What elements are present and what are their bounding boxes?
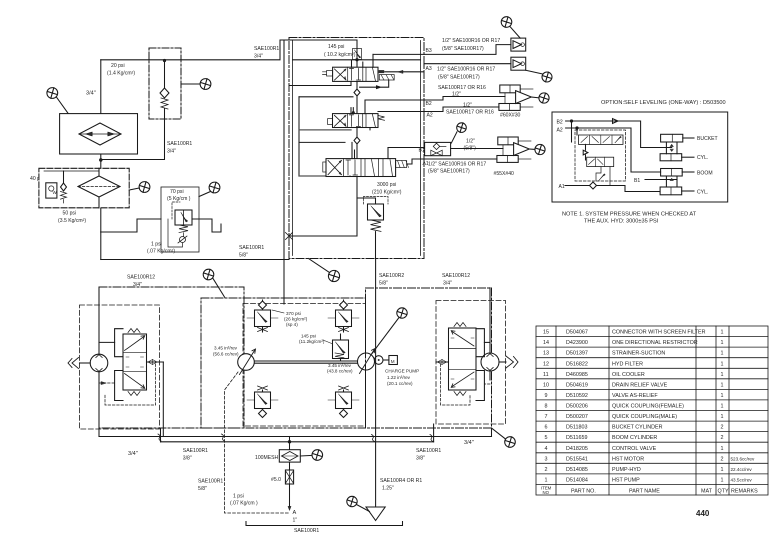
label SAE100R2 5/8" [379,273,404,287]
port symbol P11 [203,269,225,298]
svg-text:(5 Kg/cm ): (5 Kg/cm ) [167,196,191,202]
label 3000 psi [372,182,402,196]
svg-text:A2: A2 [557,128,563,134]
svg-text:1: 1 [721,330,724,336]
svg-text:6: 6 [545,425,548,431]
svg-text:440: 440 [696,509,710,518]
svg-text:PART NO.: PART NO. [571,488,596,494]
check diamond on A1 [590,182,597,189]
node B2 [570,120,572,122]
svg-text:QUICK COUPLING(FEMALE): QUICK COUPLING(FEMALE) [612,404,684,410]
svg-text:(1.4 Kg/cm²): (1.4 Kg/cm²) [107,71,135,77]
label 1/2" SAE100R17 OR R16 [446,103,494,116]
svg-text:20 psi: 20 psi [111,63,125,69]
svg-text:B1: B1 [419,148,425,154]
parts table [536,326,768,495]
svg-text:8: 8 [545,404,548,410]
HST motor right dashed case [436,301,506,425]
bracket upper motor2 [476,329,484,357]
spool2 riser stubs [351,100,370,130]
one directional restrictor D423900 [425,142,451,155]
svg-text:VALVE AS-RELIEF: VALVE AS-RELIEF [612,393,658,399]
HST motor right box [366,288,492,428]
svg-text:(43.8 cc/rev): (43.8 cc/rev) [327,369,353,374]
svg-text:14: 14 [543,340,549,346]
svg-text:QUICK COUPLING(MALE): QUICK COUPLING(MALE) [612,414,677,420]
wire left return down [100,232,102,260]
svg-text:9: 9 [545,393,548,399]
label SAE100R1 5/8" [239,245,264,259]
charge check BR [328,386,359,418]
svg-text:2: 2 [721,425,724,431]
svg-text:SAE100R1: SAE100R1 [294,528,319,534]
hyd filter D516822 with bypass [39,168,129,208]
svg-text:D510592: D510592 [566,393,588,399]
svg-text:1 psi: 1 psi [233,494,244,500]
svg-text:(5/8" SAE100R17): (5/8" SAE100R17) [428,169,470,175]
orifice motor1 [147,360,164,365]
svg-text:3/4": 3/4" [128,451,138,457]
control valve inner wall [293,41,421,256]
port symbol P2 [181,79,211,90]
svg-text:1/2": 1/2" [463,103,472,109]
table rows text [541,330,758,495]
HST motor left box [99,287,244,428]
node A2 [576,127,578,129]
wire pump loop lines [254,361,357,363]
svg-text:3/4": 3/4" [254,54,263,60]
relief valve D504619 enclosure 20psi [149,48,181,119]
port symbol P13 [492,428,516,447]
svg-text:D460985: D460985 [566,372,588,378]
pilot arrow [598,174,605,181]
boom cylinder head [661,169,694,177]
svg-text:CHARGE PUMP: CHARGE PUMP [385,369,419,374]
svg-text:(.07 Kg/cm²): (.07 Kg/cm²) [147,249,175,255]
svg-text:1: 1 [721,414,724,420]
quick coupling female C1 [511,38,526,51]
svg-text:10: 10 [543,382,549,388]
wire to point A [289,484,291,508]
svg-text:D511803: D511803 [566,425,587,431]
label SAE100R4 OR R1 1.25" [380,478,422,492]
port symbol P15 [347,496,370,511]
wire inlet top [289,39,357,41]
plugged port X [286,233,293,240]
svg-text:SAE100R12: SAE100R12 [127,275,155,281]
shaft arrows left [68,358,90,369]
bucket cylinder rod [666,142,677,154]
port symbol P10 [529,144,545,154]
svg-text:1 psi: 1 psi [151,242,162,248]
svg-text:1/2": 1/2" [452,92,461,98]
oil cooler D460985 [60,114,138,154]
svg-text:D504619: D504619 [566,382,588,388]
pressure riser wire [356,40,358,236]
label SAE100R1 5/8" drain [198,479,223,493]
bracket upper motor1 [115,329,123,357]
svg-text:BOOM: BOOM [697,171,713,177]
label 1/2" SAE100R16 OR R17 bottom [428,162,486,175]
spool valve 2 bucket section [328,114,385,128]
label SAE100R12 3/4" right [442,273,470,287]
rail wire lower 1 [99,436,492,438]
svg-text:SAE100R17 OR R16: SAE100R17 OR R16 [438,85,486,91]
svg-text:REMARKS: REMARKS [731,488,758,494]
leveling spool lower [587,157,614,166]
bracket lower motor1 [115,371,123,401]
svg-text:1/2" SAE100R16 OR R17: 1/2" SAE100R16 OR R17 [437,67,495,73]
wire main left vertical [100,60,102,232]
port symbol P14 [300,450,322,461]
port symbol P7 [526,70,552,82]
wire motor2 block bottom dashed [484,383,490,385]
drain cup symbol [212,224,221,232]
svg-text:15: 15 [543,330,549,336]
boom cylinder cap [660,187,694,195]
svg-text:SAE100R4 OR R1: SAE100R4 OR R1 [380,478,422,484]
svg-text:(.07 Kg/cm ): (.07 Kg/cm ) [230,501,258,507]
rail wire lower 2 [161,441,434,443]
svg-text:A: A [293,510,297,516]
spool valve 1 boom section [323,67,395,81]
svg-text:(56.6 cc/rev): (56.6 cc/rev) [213,352,239,357]
svg-text:50 psi: 50 psi [63,211,77,217]
node strainer top [288,441,290,443]
svg-text:D500206: D500206 [566,404,588,410]
svg-text:3/4": 3/4" [86,91,96,97]
svg-text:NO: NO [543,490,550,495]
label 3.45 in/rev right [327,363,353,374]
svg-text:SAE100R1: SAE100R1 [198,479,223,485]
label SAE100R12 3/4" left [127,275,155,289]
svg-text:5/8": 5/8" [379,281,388,287]
svg-text:3/4": 3/4" [464,440,474,446]
check arrow on B2 [613,119,619,124]
svg-text:3.45 in³/rev: 3.45 in³/rev [328,363,352,368]
wire rail drops [161,424,492,442]
svg-text:#55X#40: #55X#40 [494,171,515,177]
charge relief valve [333,334,349,361]
check valve triangle [583,150,588,155]
svg-text:(26 kg/cm²): (26 kg/cm²) [284,317,308,322]
port wire B3 [373,45,511,55]
svg-text:5: 5 [545,435,548,441]
label 1/2" SAE100R16 OR R17 top [442,38,500,52]
port wire A1 [407,159,424,164]
pilot relief 145psi on riser [353,49,362,60]
svg-text:HYD FILTER: HYD FILTER [612,361,643,367]
charge check BL [247,386,278,418]
svg-text:(3.5 Kg/cm²): (3.5 Kg/cm²) [58,218,86,224]
tank symbol T1 [366,507,385,521]
svg-text:#5.0: #5.0 [271,477,281,483]
svg-text:DRAIN RELIEF VALVE: DRAIN RELIEF VALVE [612,382,668,388]
svg-text:D514084: D514084 [566,477,588,483]
spring bottom motor2 [454,392,466,396]
svg-text:3.45 in³/rev: 3.45 in³/rev [214,346,238,351]
svg-text:1: 1 [721,467,724,473]
motor M2 valve block [449,328,477,390]
svg-text:CONNECTOR WITH SCREEN FILTER: CONNECTOR WITH SCREEN FILTER [612,330,706,336]
load check node 2 [354,137,360,144]
svg-text:D501397: D501397 [566,351,588,357]
svg-text:13: 13 [543,351,549,357]
svg-text:BUCKET CYLINDER: BUCKET CYLINDER [612,425,663,431]
spring bottom motor1 [128,392,140,396]
wire block drain down [162,362,164,437]
svg-text:OPTION:SELF LEVELING (ONE-WAY): OPTION:SELF LEVELING (ONE-WAY) : D503500 [601,100,726,106]
wire motor2 to block [484,341,490,343]
svg-text:(11.2kg/cm²): (11.2kg/cm²) [299,339,325,344]
label 70 psi [167,189,191,202]
svg-text:3/8": 3/8" [416,456,425,462]
svg-text:1: 1 [721,446,724,452]
svg-text:A1: A1 [559,184,565,190]
load check node 1 [354,89,360,96]
svg-text:1: 1 [721,477,724,483]
svg-text:7: 7 [545,414,548,420]
svg-text:D423900: D423900 [566,340,588,346]
svg-text:523.6cc/rev: 523.6cc/rev [731,456,755,461]
svg-text:1/2" SAE100R16 OR R17: 1/2" SAE100R16 OR R17 [428,162,486,168]
svg-text:D418205: D418205 [566,446,588,452]
svg-text:CYL.: CYL. [697,190,708,196]
wire A1 to coupling [424,158,497,160]
svg-text:#60X#30: #60X#30 [500,113,521,119]
hose break marks [158,434,433,442]
bucket cylinder head [661,134,694,142]
label SAE100R1 3/4" at valve inlet [254,46,279,60]
bracket SAE100R1 [246,522,403,535]
label A 1" [293,510,298,524]
pump dashed case [243,304,366,427]
svg-text:HST PUMP: HST PUMP [612,477,640,483]
HST motor M2 circle [481,353,499,371]
port symbol P12 [372,308,407,354]
wire top horizontal to valve [101,40,289,60]
svg-text:BOOM CYLINDER: BOOM CYLINDER [612,435,657,441]
node riser rail [356,59,358,61]
svg-text:5/8": 5/8" [239,253,248,259]
spool3 riser stubs [350,142,388,176]
return collector wires [290,86,354,177]
svg-text:CONTROL VALVE: CONTROL VALVE [612,446,657,452]
svg-text:5/8": 5/8" [198,486,207,492]
svg-text:70 psi: 70 psi [170,189,184,195]
wire motor2 vertical [489,288,491,380]
svg-text:1: 1 [545,477,548,483]
label 50 psi [58,211,86,225]
svg-text:12: 12 [543,361,549,367]
bucket cylinder cap [660,154,694,161]
main relief valve 3000psi [357,197,388,259]
svg-text:SAE100R1: SAE100R1 [167,141,192,147]
wire restrictor to coupling [451,148,503,150]
svg-text:2: 2 [721,456,724,462]
svg-text:1.25": 1.25" [382,486,394,492]
port symbol P4 [199,182,220,196]
leveling valve dashed box [575,130,625,181]
drain relief valve 70psi box [161,187,212,252]
arrow drain motor1 [101,382,106,385]
svg-text:1/2" SAE100R16 OR R17: 1/2" SAE100R16 OR R17 [442,38,500,44]
svg-text:3000 psi: 3000 psi [377,182,396,188]
svg-text:MAT: MAT [701,488,713,494]
svg-text:1: 1 [721,393,724,399]
shaft arrows right [499,356,518,368]
svg-text:A3: A3 [426,66,432,72]
HST pump PU2 [358,349,376,374]
svg-text:1: 1 [721,351,724,357]
svg-text:1: 1 [721,361,724,367]
svg-text:CYL.: CYL. [697,155,708,161]
svg-text:QTY: QTY [718,488,729,494]
svg-text:THE AUX. HYD: 3000±35 PSI: THE AUX. HYD: 3000±35 PSI [584,219,659,225]
label SAE100R17 OR R16 [438,85,486,98]
connector with screen filter D504067 [285,462,293,484]
svg-text:HST MOTOR: HST MOTOR [612,456,644,462]
svg-text:100MESH: 100MESH [255,455,279,461]
label 1 psi bottom [230,494,258,507]
HST motor left dashed case [80,305,160,429]
svg-text:SAE100R12: SAE100R12 [442,273,470,279]
port symbol P3 [129,182,150,193]
svg-text:2: 2 [545,467,548,473]
wire motor to block top [99,341,115,343]
svg-text:1: 1 [721,340,724,346]
pump enclosure box [201,298,366,428]
port wire B2 [365,97,505,101]
wire check stubs [585,144,587,160]
option self leveling box D503500 [552,112,728,202]
wire motor to block bottom dashed [99,382,115,384]
wire nodes into valve [572,121,578,142]
motor box M [389,356,398,365]
label SAE100R1 3/4" [167,141,192,155]
port symbol P9 [451,123,466,143]
quick coupling female C2 [511,57,526,70]
label 1 psi [147,242,175,255]
svg-text:B3: B3 [426,48,432,54]
svg-text:SAE100R1: SAE100R1 [416,448,441,454]
wire option A2 [566,128,661,172]
bracket lower motor2 [476,371,484,401]
charge pump CP [374,356,388,365]
svg-text:B2: B2 [426,101,432,107]
wire relief drain to tank vertical [375,259,377,508]
svg-text:SAE100R1: SAE100R1 [183,448,208,454]
pilot wires lower [596,167,610,186]
spring top motor1 [128,329,140,333]
wire motor vertical [98,287,100,437]
svg-text:SAE100R17 OR R16: SAE100R17 OR R16 [446,110,494,116]
svg-text:M: M [391,359,395,364]
label CHARGE PUMP [385,369,419,387]
svg-text:B2: B2 [557,120,563,126]
HST motor M1 circle [90,354,108,372]
svg-text:ONE DIRECTIONAL RESTRICTOR: ONE DIRECTIONAL RESTRICTOR [612,340,698,346]
svg-text:PART NAME: PART NAME [629,488,660,494]
svg-text:22.4cc/rev: 22.4cc/rev [731,467,753,472]
svg-text:D514085: D514085 [566,467,588,473]
wire inner supply rail [293,59,421,61]
svg-text:3/4": 3/4" [167,149,176,155]
svg-text:1: 1 [721,404,724,410]
svg-text:BUCKET: BUCKET [697,136,718,142]
svg-text:D516822: D516822 [566,361,588,367]
wire option B1 [645,179,677,181]
svg-text:11: 11 [543,372,549,378]
port symbol P1 top-left [47,88,68,114]
label 145 psi charge [299,334,333,345]
svg-text:1: 1 [721,382,724,388]
wire supply riser x=284 [283,40,285,304]
boom cylinder rod [666,176,677,187]
svg-text:B1: B1 [634,178,640,184]
dashed drain loop motor2 [441,364,471,405]
port symbol P5 below valve [309,259,340,282]
svg-text:1: 1 [721,372,724,378]
label 1/2" SAE100R16 OR R17 A3 [437,67,495,81]
suction strainer D501397 [279,450,300,462]
svg-text:(5/8" SAE100R17): (5/8" SAE100R17) [442,46,484,52]
spool1 riser stubs [351,54,373,85]
label 3.45 in/rev left [213,346,239,357]
svg-text:145 psi: 145 psi [328,44,344,50]
svg-text:D515541: D515541 [566,456,588,462]
svg-text:1/2": 1/2" [466,139,475,145]
label SAE100R1 3/8" right [416,448,441,462]
label 370 psi [272,310,308,327]
wire option A1 [565,186,660,192]
svg-text:PUMP-HYD: PUMP-HYD [612,467,641,473]
spring top motor2 [454,323,466,327]
svg-text:SAE100R1: SAE100R1 [239,245,264,251]
bottom collector wire [289,235,357,237]
arrow A [288,507,291,511]
HST pump PU1 [238,349,256,375]
junction node [100,159,102,161]
svg-text:A2: A2 [427,113,433,119]
wire to strainer [289,437,291,450]
svg-text:(5/8" SAE100R17): (5/8" SAE100R17) [438,75,480,81]
svg-text:D504067: D504067 [566,330,588,336]
svg-text:W: W [53,190,58,195]
svg-text:D500207: D500207 [566,414,588,420]
spool1 service line [360,80,389,89]
label SAE100R1 3/8" left [183,448,208,462]
svg-text:1": 1" [293,518,298,524]
svg-text:SAE100R2: SAE100R2 [379,273,404,279]
charge check TR [328,300,359,332]
wire filter to 70psi box [101,219,161,232]
orifice motor2 [436,360,449,365]
svg-text:3/8": 3/8" [183,456,192,462]
svg-text:SAE100R1: SAE100R1 [254,46,279,52]
wire option B2 [566,121,672,148]
charge check TL [247,300,278,332]
label 145 psi [324,44,356,58]
svg-text:OIL COOLER: OIL COOLER [612,372,645,378]
quick coupling pair Q1 [499,85,533,110]
leveling spool upper [579,135,624,144]
port wire A2 [378,107,499,112]
svg-text:370 psi: 370 psi [286,311,301,316]
svg-text:3/4": 3/4" [443,281,452,287]
svg-text:(20.1 cc/rev): (20.1 cc/rev) [387,381,413,386]
svg-text:(sp 4): (sp 4) [286,322,298,327]
